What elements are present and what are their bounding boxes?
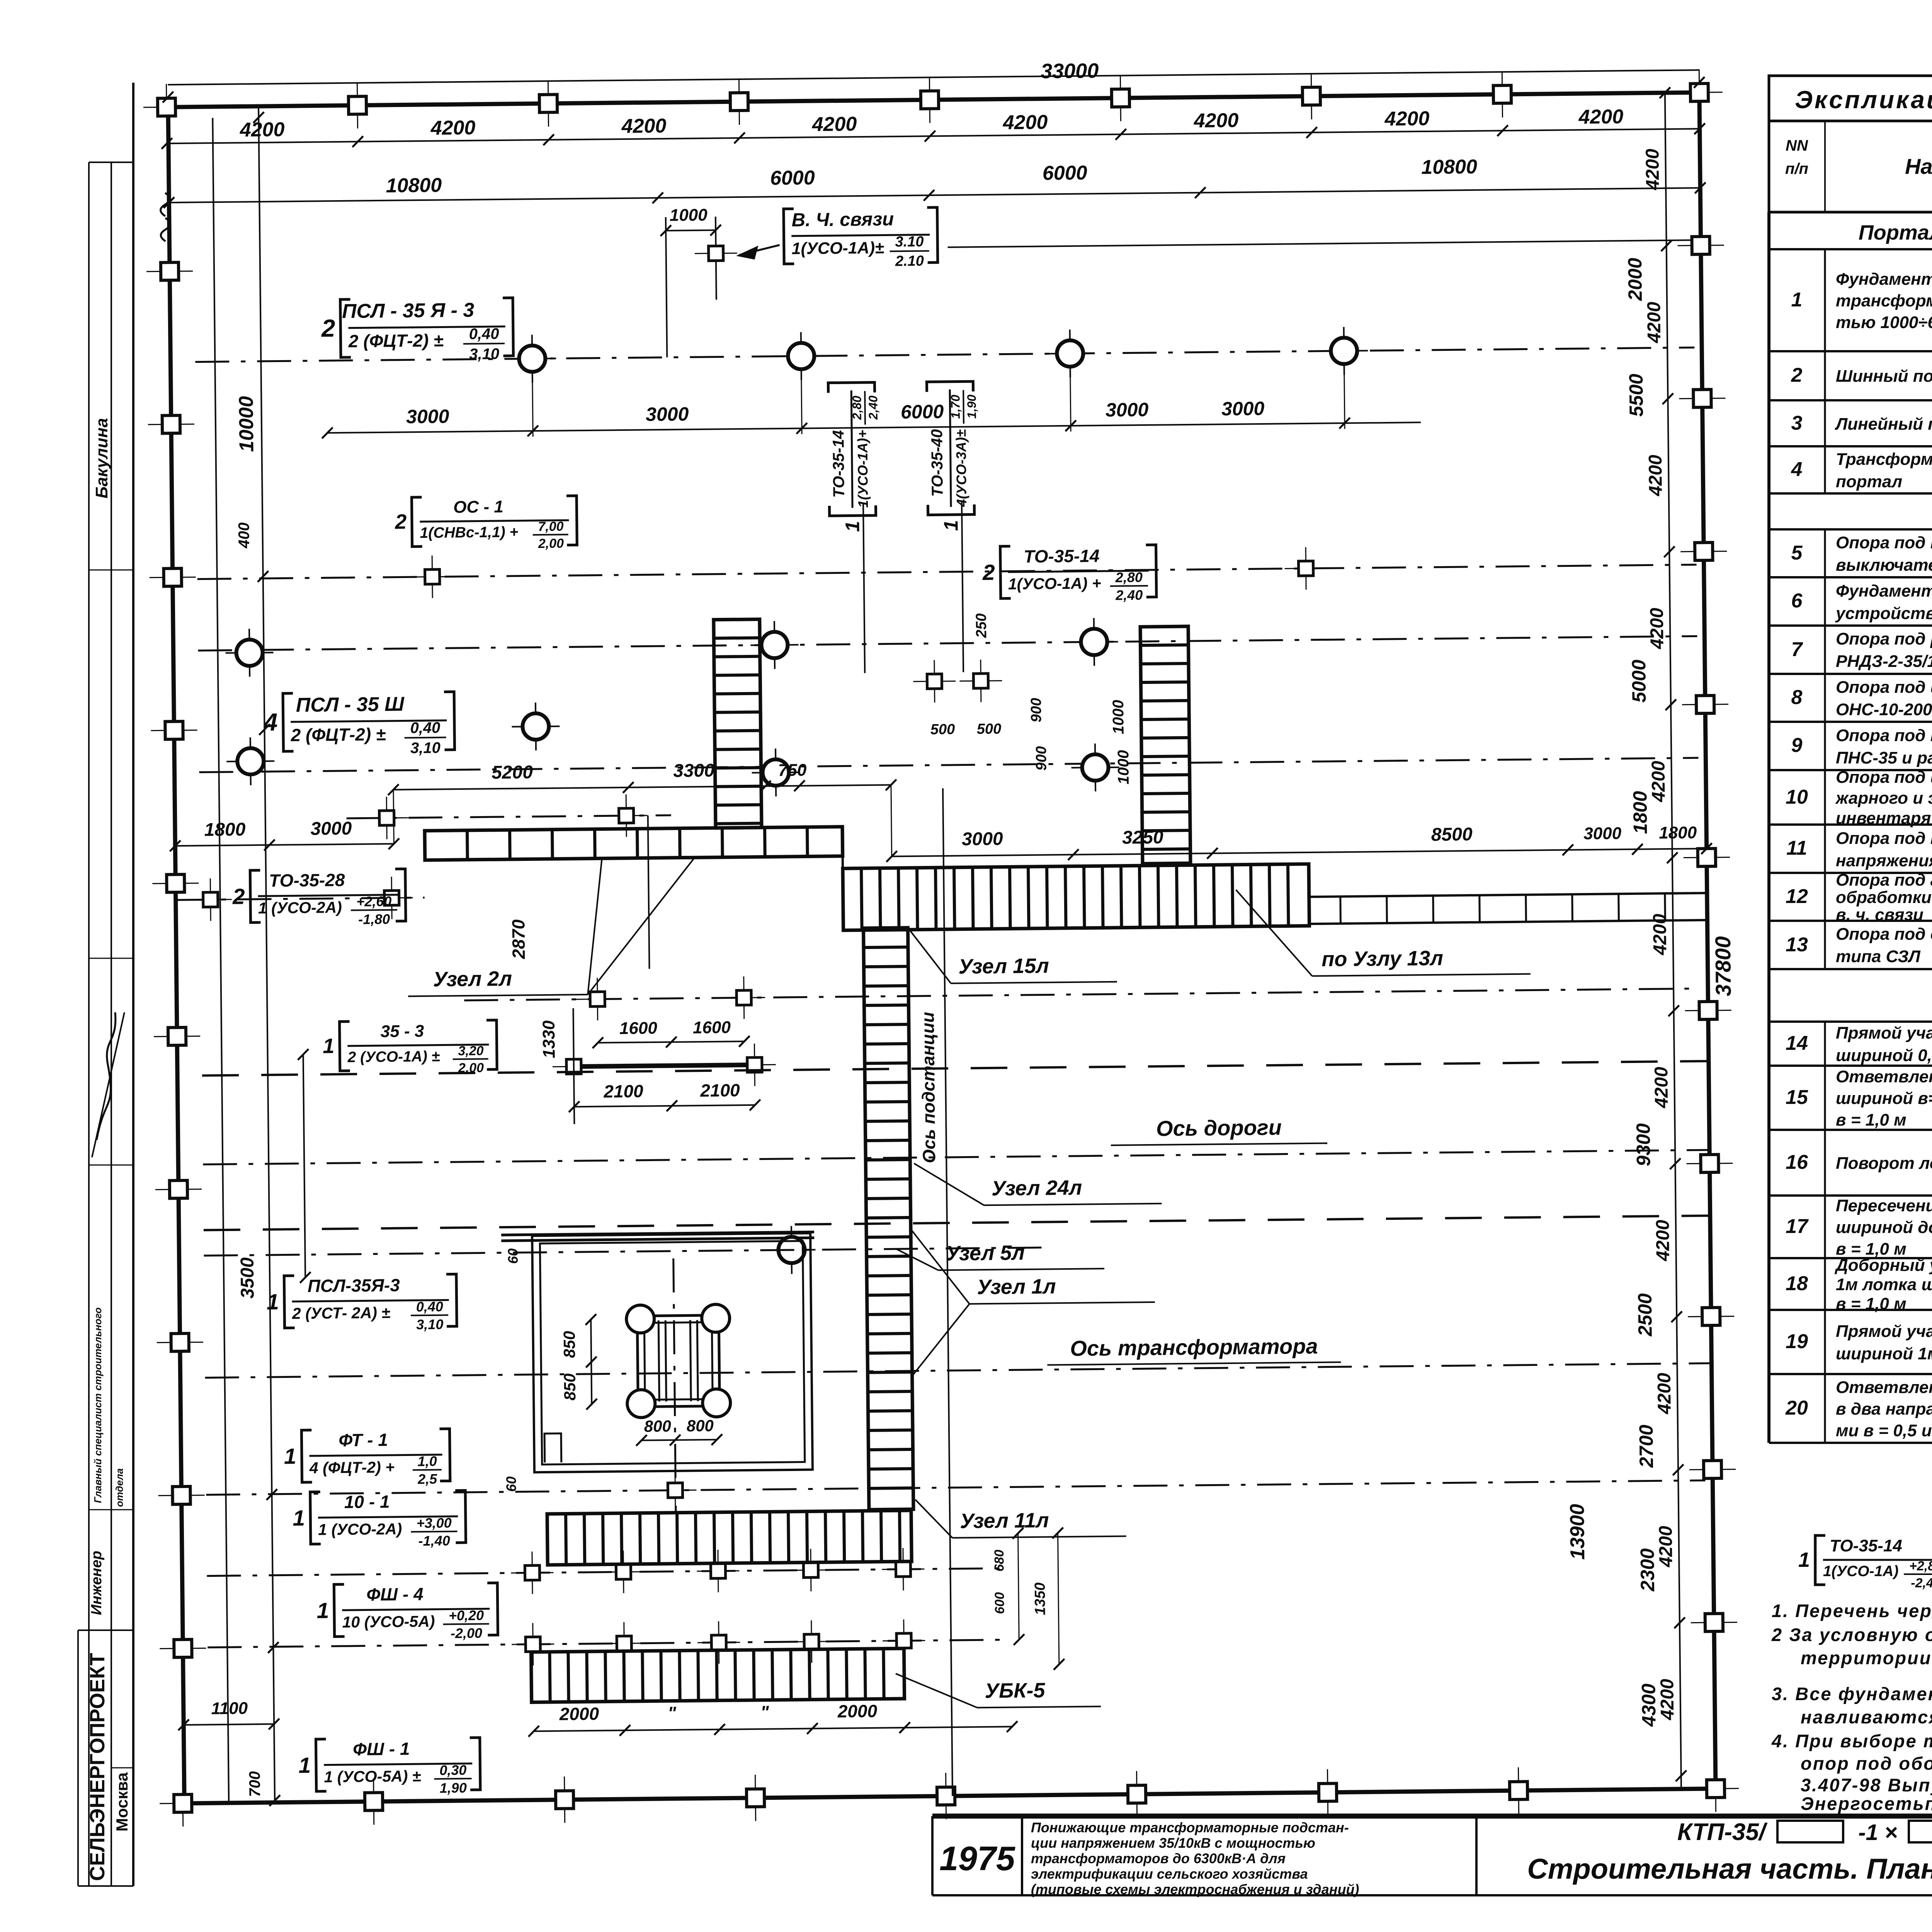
dim row 33000 — [168, 70, 1699, 85]
svg-text:3300: 3300 — [673, 760, 715, 781]
svg-text:4 (ФЦТ-2) +: 4 (ФЦТ-2) + — [309, 1458, 395, 1477]
svg-text:8: 8 — [1791, 686, 1803, 709]
svg-text:2300: 2300 — [1636, 1548, 1658, 1592]
formula ФШ-4 — [316, 1583, 498, 1642]
svg-text:территории подстанции.: территории подстанции. — [1801, 1648, 1932, 1668]
svg-text:1(УСО-1А): 1(УСО-1А) — [1823, 1563, 1898, 1580]
svg-text:16: 16 — [1786, 1151, 1808, 1173]
svg-text:2000: 2000 — [559, 1704, 599, 1724]
svg-text:4. При выборе типа закрепле: 4. При выборе типа закреплений фундамент… — [1771, 1731, 1932, 1751]
svg-text:ми в = 0,5 и в = 1,0 м: ми в = 0,5 и в = 1,0 м — [1836, 1421, 1932, 1440]
svg-text:Опора под изоляторы: Опора под изоляторы — [1836, 678, 1932, 697]
svg-text:2 (ФЦТ-2) ±: 2 (ФЦТ-2) ± — [290, 724, 386, 745]
svg-text:400: 400 — [235, 522, 253, 549]
svg-text:Опора под аппаратуру: Опора под аппаратуру — [1836, 871, 1932, 889]
svg-text:1100: 1100 — [211, 1699, 248, 1718]
svg-text:3000: 3000 — [310, 818, 352, 839]
svg-text:+3,00: +3,00 — [417, 1515, 452, 1531]
svg-text:37800: 37800 — [1711, 936, 1735, 997]
table body vertical lines — [1824, 249, 1826, 493]
svg-text:": " — [668, 1703, 677, 1723]
svg-text:3: 3 — [1791, 412, 1803, 434]
table row 7 — [1791, 629, 1932, 671]
table row 6 — [1791, 580, 1932, 623]
svg-text:1600: 1600 — [619, 1019, 658, 1038]
svg-text:13900: 13900 — [1566, 1504, 1589, 1560]
svg-text:3000: 3000 — [1583, 824, 1622, 843]
svg-text:Узел 24л: Узел 24л — [992, 1176, 1082, 1200]
formula ФТ-1 — [284, 1429, 450, 1488]
svg-text:2,5: 2,5 — [417, 1471, 437, 1487]
svg-text:1: 1 — [841, 521, 863, 532]
svg-text:опор под оборудование руков: опор под оборудование руководствоваться … — [1801, 1753, 1932, 1774]
site plan group — [143, 53, 1743, 1827]
svg-text:4200: 4200 — [1578, 105, 1623, 128]
svg-text:1 (УСО-2А): 1 (УСО-2А) — [258, 898, 342, 917]
cable tray vertical V2 — [1140, 626, 1190, 864]
svg-text:0,40: 0,40 — [469, 325, 499, 343]
svg-text:3000: 3000 — [962, 829, 1003, 850]
dim row 10800 6000 — [169, 188, 1700, 202]
table row 9 — [1791, 726, 1932, 767]
svg-text:6000: 6000 — [1043, 162, 1087, 184]
svg-text:трансформаторов до 6300кВ·А: трансформаторов до 6300кВ·А для — [1031, 1850, 1286, 1866]
svg-text:Фундамент под силовой: Фундамент под силовой — [1836, 270, 1932, 289]
table header row — [1769, 121, 1932, 212]
svg-text:1350: 1350 — [1032, 1582, 1049, 1615]
svg-text:5000: 5000 — [1628, 660, 1650, 703]
axis 2577 nodes — [464, 988, 1701, 1000]
svg-text:1600: 1600 — [693, 1018, 731, 1037]
formula 35-3 — [323, 1020, 497, 1077]
svg-text:Узел 15л: Узел 15л — [958, 954, 1049, 978]
dim row 3000/6000 — [327, 422, 1421, 433]
svg-text:2100: 2100 — [603, 1081, 643, 1102]
cable tray vertical long V3 — [864, 928, 913, 1510]
formula ВЧ связи — [784, 207, 938, 270]
svg-text:в = 1,0 м: в = 1,0 м — [1836, 1111, 1906, 1129]
svg-text:электрификации сельского хоз: электрификации сельского хозяйства — [1031, 1866, 1308, 1882]
svg-text:Ответвление от лотка в=1,0: Ответвление от лотка в=1,0 — [1836, 1378, 1932, 1397]
svg-text:Порталы и фундаменты под т: Порталы и фундаменты под трансформаторы — [1859, 221, 1932, 244]
svg-text:1: 1 — [1798, 1548, 1810, 1571]
dims 800 800 — [641, 1440, 717, 1440]
svg-text:6: 6 — [1791, 590, 1803, 612]
svg-text:3,10: 3,10 — [416, 1316, 443, 1333]
formula ПСЛ-35Я-3 lower — [266, 1274, 457, 1334]
axis 4060 with posts — [207, 1568, 1011, 1576]
svg-text:4200: 4200 — [621, 115, 666, 138]
svg-text:17: 17 — [1786, 1215, 1809, 1238]
svg-text:5: 5 — [1791, 542, 1803, 564]
fence posts left — [146, 248, 193, 295]
svg-text:3500: 3500 — [237, 1257, 258, 1299]
svg-text:2: 2 — [395, 510, 407, 533]
svg-text:10800: 10800 — [386, 174, 442, 197]
svg-text:напряжения ЗНОМ-35-65: напряжения ЗНОМ-35-65 — [1836, 851, 1932, 870]
ВЧ связи node — [666, 217, 667, 357]
svg-text:2 (УСО-1А) ±: 2 (УСО-1А) ± — [347, 1048, 440, 1066]
axis row D 1956/1995 — [199, 758, 1699, 772]
svg-text:ТО-35-40: ТО-35-40 — [928, 429, 946, 497]
svg-text:0,40: 0,40 — [410, 719, 440, 737]
svg-text:1 (УСО-5А) ±: 1 (УСО-5А) ± — [324, 1767, 421, 1786]
svg-text:инвентаря: инвентаря — [1836, 809, 1931, 828]
svg-text:ФШ - 4: ФШ - 4 — [366, 1584, 423, 1604]
svg-text:1м лотка шириной: 1м лотка шириной — [1836, 1275, 1932, 1294]
fence companion lines — [213, 118, 229, 1803]
svg-text:4200: 4200 — [1653, 1219, 1673, 1262]
svg-text:9: 9 — [1791, 734, 1803, 757]
svg-text:1,90: 1,90 — [440, 1780, 467, 1796]
node pair small — [913, 660, 956, 703]
circle drop ticks — [532, 373, 533, 437]
svg-text:2: 2 — [982, 560, 995, 585]
svg-text:12: 12 — [1786, 885, 1808, 908]
svg-text:11: 11 — [1786, 837, 1807, 859]
svg-text:Энергосетьпроектом.: Энергосетьпроектом. — [1801, 1793, 1932, 1814]
svg-text:1: 1 — [1791, 289, 1803, 311]
svg-text:1: 1 — [940, 520, 962, 531]
svg-text:Опора под предохранители: Опора под предохранители — [1836, 726, 1932, 745]
svg-text:п/п: п/п — [1785, 160, 1808, 177]
svg-text:4200: 4200 — [1002, 111, 1048, 134]
svg-text:Трансформаторный: Трансформаторный — [1836, 450, 1932, 469]
svg-text:0,30: 0,30 — [439, 1762, 466, 1778]
svg-text:4200: 4200 — [1645, 454, 1666, 497]
axis row A (circles 918) — [195, 347, 1694, 362]
svg-text:Наименование: Наименование — [1905, 154, 1932, 179]
svg-text:2,80: 2,80 — [1115, 569, 1143, 585]
svg-text:15: 15 — [1786, 1086, 1808, 1109]
fence posts top — [143, 84, 190, 131]
dim 2000 row — [534, 1726, 1012, 1731]
formula ОС-1 — [395, 496, 577, 553]
svg-text:4200: 4200 — [811, 113, 857, 136]
svg-text:ТО-35-14: ТО-35-14 — [1830, 1536, 1902, 1555]
svg-text:2,40: 2,40 — [866, 395, 880, 420]
svg-text:3000: 3000 — [646, 403, 689, 425]
svg-text:800: 800 — [687, 1417, 714, 1435]
svg-text:Опора под разъединитель: Опора под разъединитель — [1836, 629, 1932, 648]
svg-text:4200: 4200 — [1647, 607, 1668, 650]
svg-text:250: 250 — [973, 613, 990, 638]
svg-text:ПСЛ - 35 Ш: ПСЛ - 35 Ш — [296, 693, 405, 716]
arrow ВЧ связи — [739, 245, 780, 255]
svg-text:1(УСО-1А)+: 1(УСО-1А)+ — [854, 430, 871, 508]
svg-text:4200: 4200 — [1384, 107, 1429, 130]
svg-text:4: 4 — [1791, 458, 1803, 481]
svg-text:1: 1 — [323, 1034, 335, 1058]
svg-text:19: 19 — [1786, 1330, 1808, 1353]
svg-text:1800: 1800 — [204, 819, 246, 840]
svg-text:18: 18 — [1786, 1272, 1808, 1295]
svg-text:4200: 4200 — [1655, 1526, 1676, 1568]
svg-text:шириной 1м: шириной 1м — [1836, 1344, 1932, 1363]
svg-text:Пересечение автодороги: Пересечение автодороги — [1836, 1196, 1932, 1215]
formula legend example — [1798, 1536, 1932, 1590]
formula ТО-35-14 vert — [828, 382, 881, 532]
svg-text:+0,20: +0,20 — [449, 1607, 484, 1624]
svg-text:1(УСО-1А)±: 1(УСО-1А)± — [791, 238, 884, 258]
svg-text:2100: 2100 — [700, 1080, 740, 1100]
svg-text:ПСЛ-35Я-3: ПСЛ-35Я-3 — [308, 1275, 400, 1296]
svg-text:1000: 1000 — [1110, 700, 1127, 734]
axis from ВЧ связи to table — [948, 240, 1694, 247]
svg-text:1800: 1800 — [1629, 791, 1651, 834]
svg-text:10 - 1: 10 - 1 — [344, 1492, 390, 1512]
svg-text:850: 850 — [561, 1373, 579, 1401]
svg-text:600: 600 — [992, 1592, 1007, 1614]
svg-text:2: 2 — [232, 884, 245, 909]
cable tray vertical V1 — [714, 619, 762, 828]
svg-text:3.407-98 Выпуск 1 и 3.407-9: 3.407-98 Выпуск 1 и 3.407-93. Альбом I, … — [1801, 1775, 1932, 1795]
svg-text:Прямой участок лотка: Прямой участок лотка — [1836, 1322, 1932, 1341]
svg-text:Ответвление от лотка: Ответвление от лотка — [1836, 1067, 1932, 1086]
svg-text:Узел 2л: Узел 2л — [433, 967, 512, 991]
svg-text:1: 1 — [267, 1290, 279, 1315]
svg-text:10000: 10000 — [235, 396, 258, 452]
svg-text:1,70: 1,70 — [948, 395, 963, 419]
svg-text:4200: 4200 — [430, 117, 475, 139]
svg-text:Узел 1л: Узел 1л — [977, 1275, 1056, 1299]
svg-text:2: 2 — [1791, 364, 1803, 386]
formula ТО-35-14 h — [982, 545, 1156, 604]
table row 15 — [1786, 1067, 1932, 1129]
svg-text:1: 1 — [293, 1506, 305, 1531]
svg-text:1(УСО-1А) +: 1(УСО-1А) + — [1008, 574, 1101, 593]
svg-text:1800: 1800 — [1659, 823, 1697, 842]
svg-text:900: 900 — [1033, 746, 1050, 771]
svg-text:900: 900 — [1028, 698, 1045, 723]
cable tray horizontal 0.5m (Узел 2л) — [425, 827, 843, 860]
road dashed north — [202, 1061, 1709, 1075]
table row 13 — [1786, 925, 1932, 966]
table row 10 — [1786, 768, 1932, 828]
svg-text:3000: 3000 — [406, 405, 449, 427]
svg-text:трансформатор мощнос-: трансформатор мощнос- — [1836, 291, 1932, 310]
svg-text:УБК-5: УБК-5 — [985, 1679, 1046, 1703]
svg-text:жарного и эксплуатационного: жарного и эксплуатационного — [1835, 789, 1932, 808]
transformer foundation ФТ-1 — [637, 1315, 719, 1407]
svg-text:35 - 3: 35 - 3 — [381, 1022, 424, 1041]
svg-text:ФШ - 1: ФШ - 1 — [353, 1738, 410, 1759]
svg-text:Прямой участок лотка: Прямой участок лотка — [1836, 1024, 1932, 1043]
svg-text:устройство 6-10кВ: устройство 6-10кВ — [1835, 604, 1932, 623]
svg-text:2000: 2000 — [1624, 258, 1646, 301]
svg-text:1975: 1975 — [939, 1839, 1015, 1878]
table row 18 — [1786, 1256, 1932, 1313]
svg-text:шириной до 4м и лотком: шириной до 4м и лотком — [1836, 1218, 1932, 1237]
svg-text:5200: 5200 — [492, 762, 533, 783]
svg-text:2.10: 2.10 — [895, 253, 924, 269]
table row 14 — [1786, 1020, 1932, 1067]
svg-text:-1,80: -1,80 — [358, 911, 390, 927]
svg-text:1(СНВс-1,1) +: 1(СНВс-1,1) + — [420, 524, 518, 541]
svg-text:10 (УСО-5А): 10 (УСО-5А) — [342, 1612, 435, 1631]
left stamp strip — [78, 83, 133, 1886]
bottom tray 2 — [531, 1648, 904, 1702]
axis row B 1480 — [197, 565, 1697, 579]
table body horizontal lines — [1769, 211, 1932, 213]
svg-text:СЕЛЬЭНЕРГОПРОЕКТ: СЕЛЬЭНЕРГОПРОЕКТ — [86, 1653, 109, 1881]
svg-text:1,0: 1,0 — [418, 1453, 437, 1469]
svg-text:0,40: 0,40 — [416, 1299, 443, 1315]
svg-text:4200: 4200 — [1648, 760, 1669, 803]
svg-text:в два направления лотка-: в два направления лотка- — [1836, 1400, 1932, 1418]
svg-text:4200: 4200 — [1644, 301, 1665, 344]
dims 1600 1600 — [598, 1041, 744, 1043]
dim 1100 bottom left — [184, 1724, 274, 1725]
dim row middle segment B — [393, 785, 891, 789]
svg-text:ОНС-10-2000: ОНС-10-2000 — [1836, 700, 1932, 719]
svg-text:портал: портал — [1836, 472, 1902, 491]
axis q2 2310 — [176, 898, 425, 900]
svg-text:2 За условную отметку 0,00: 2 За условную отметку 0,00 принята отмет… — [1771, 1624, 1932, 1645]
table row 4 — [1791, 450, 1932, 491]
table row 12 — [1786, 871, 1932, 924]
svg-text:ции напряжением 35/10кВ с: ции напряжением 35/10кВ с мощностью — [1031, 1835, 1315, 1851]
dims 680 600 1350 — [1018, 1533, 1019, 1639]
axis Ось подстанции — [943, 788, 952, 1796]
svg-text:2500: 2500 — [1634, 1293, 1656, 1337]
specification table — [1769, 76, 1932, 1443]
transformer enclosure — [532, 1233, 813, 1472]
fence break marks — [160, 193, 170, 216]
table title row — [1769, 76, 1932, 121]
svg-text:1330: 1330 — [539, 1020, 559, 1058]
svg-text:Опора под трансформаторы: Опора под трансформаторы — [1836, 829, 1932, 848]
svg-text:800: 800 — [644, 1417, 672, 1435]
bar 2751 — [573, 1065, 755, 1067]
svg-text:Линейный портал: Линейный портал — [1835, 415, 1932, 434]
svg-text:1: 1 — [298, 1753, 311, 1778]
svg-text:33000: 33000 — [1041, 59, 1099, 83]
formula ФШ-1 — [298, 1738, 480, 1797]
svg-text:шириной в=1м лотка: шириной в=1м лотка — [1836, 1089, 1932, 1108]
svg-text:2700: 2700 — [1635, 1425, 1657, 1468]
svg-text:4200: 4200 — [1642, 148, 1663, 190]
svg-text:500: 500 — [977, 721, 1002, 738]
svg-text:Понижающие трансформаторные: Понижающие трансформаторные подстан- — [1031, 1820, 1349, 1835]
dim row middle segment C — [892, 849, 1707, 856]
svg-text:отдела: отдела — [114, 1468, 125, 1507]
axis q1 2103 — [347, 815, 671, 818]
road dashed south — [204, 1216, 1710, 1230]
table row 1 — [1791, 265, 1932, 343]
svg-text:Опора под шкаф противопо-: Опора под шкаф противопо- — [1836, 768, 1932, 787]
svg-text:4200: 4200 — [1657, 1679, 1678, 1721]
svg-text:7,00: 7,00 — [538, 519, 564, 534]
svg-text:60: 60 — [505, 1248, 520, 1264]
dim row 4200 top — [168, 129, 1700, 143]
svg-text:4300: 4300 — [1638, 1684, 1660, 1727]
fence posts right — [1677, 222, 1724, 269]
svg-text:ТО-35-14: ТО-35-14 — [829, 430, 848, 498]
cable tray extension to fence — [1309, 893, 1707, 897]
svg-text:в. ч. связи: в. ч. связи — [1836, 905, 1923, 924]
svg-text:-1 ×: -1 × — [1858, 1820, 1898, 1845]
svg-text:Узел 5л: Узел 5л — [946, 1241, 1025, 1265]
svg-text:1: 1 — [284, 1444, 296, 1469]
svg-text:обработки ВЛ 35 кВ для: обработки ВЛ 35 кВ для — [1836, 888, 1932, 907]
svg-text:2870: 2870 — [508, 919, 529, 959]
svg-text:ОС - 1: ОС - 1 — [453, 497, 503, 517]
dims 2100 2100 — [574, 1105, 755, 1107]
svg-text:680: 680 — [992, 1549, 1007, 1571]
svg-text:7: 7 — [1791, 638, 1803, 661]
svg-text:1000: 1000 — [1115, 750, 1132, 784]
table row 8 — [1791, 678, 1932, 719]
svg-text:ТО-35-28: ТО-35-28 — [269, 870, 345, 891]
svg-text:Ось трансформатора: Ось трансформатора — [1070, 1334, 1318, 1361]
svg-text:2,40: 2,40 — [1115, 587, 1143, 603]
dim row middle segment A — [175, 844, 394, 846]
svg-text:Бакулина: Бакулина — [92, 418, 111, 498]
svg-text:60: 60 — [503, 1476, 519, 1492]
svg-text:3000: 3000 — [1221, 398, 1265, 420]
svg-text:Доборный участок длиной: Доборный участок длиной — [1834, 1256, 1932, 1275]
svg-text:навливаются в сверленые кот: навливаются в сверленые котлованы. — [1801, 1707, 1932, 1727]
svg-text:10800: 10800 — [1421, 156, 1477, 179]
svg-text:": " — [760, 1702, 769, 1722]
svg-text:РНДЗ-2-35/1000;РНДЗ-1б-35: РНДЗ-2-35/1000;РНДЗ-1б-35 — [1836, 652, 1932, 671]
svg-text:В. Ч. связи: В. Ч. связи — [791, 209, 894, 231]
stamp signature — [97, 1012, 116, 1140]
svg-text:2,00: 2,00 — [538, 536, 564, 551]
svg-text:Экспликация фундаментов и о: Экспликация фундаментов и опор под обору… — [1795, 86, 1932, 114]
svg-text:-1,40: -1,40 — [418, 1532, 450, 1549]
table row 16 — [1786, 1137, 1932, 1188]
svg-text:Шинный портал: Шинный портал — [1836, 367, 1932, 386]
svg-text:Строительная часть. План ф: Строительная часть. План фундаментов — [1527, 1853, 1932, 1885]
svg-text:Ось дороги: Ось дороги — [1156, 1115, 1282, 1141]
svg-text:в = 1,0 м: в = 1,0 м — [1836, 1294, 1906, 1313]
svg-text:8500: 8500 — [1431, 824, 1473, 845]
axis Узел 5л row — [204, 1248, 1046, 1256]
svg-text:Опора под масляный: Опора под масляный — [1836, 533, 1932, 552]
portal bar 3185 — [501, 1232, 814, 1235]
transformer axes — [673, 1259, 676, 1512]
svg-text:Поворот лотка в = 1,0 м: Поворот лотка в = 1,0 м — [1836, 1154, 1932, 1173]
axis 3850 (10-1) — [206, 1480, 1706, 1495]
svg-text:3000: 3000 — [1105, 399, 1149, 421]
svg-text:КТП-35/: КТП-35/ — [1677, 1819, 1768, 1845]
table row 5 — [1791, 533, 1932, 575]
fence outline — [168, 92, 1699, 107]
title block — [932, 1816, 1932, 1897]
fence posts bottom — [160, 1780, 206, 1827]
svg-text:типа СЗЛ: типа СЗЛ — [1836, 947, 1921, 966]
svg-text:ПНС-35 и разрядники РВС-35: ПНС-35 и разрядники РВС-35 — [1836, 748, 1932, 767]
svg-text:3,20: 3,20 — [458, 1044, 484, 1059]
formula ПСЛ-35Ш — [263, 692, 455, 758]
left dim chain — [259, 106, 275, 1803]
formula ТО-35-28 — [232, 869, 406, 929]
svg-text:по Узлу 13л: по Узлу 13л — [1321, 947, 1443, 971]
svg-text:5500: 5500 — [1625, 374, 1647, 417]
svg-text:ПСЛ - 35 Я - 3: ПСЛ - 35 Я - 3 — [342, 299, 474, 323]
table row 19 — [1786, 1311, 1932, 1372]
svg-text:4200: 4200 — [240, 118, 285, 141]
svg-text:Опора под светильник: Опора под светильник — [1836, 925, 1932, 944]
svg-text:NN: NN — [1786, 137, 1808, 154]
svg-text:6000: 6000 — [770, 167, 815, 189]
svg-text:20: 20 — [1785, 1397, 1808, 1419]
svg-text:4: 4 — [263, 708, 277, 736]
svg-text:2: 2 — [321, 314, 335, 342]
svg-text:1,90: 1,90 — [964, 395, 979, 419]
